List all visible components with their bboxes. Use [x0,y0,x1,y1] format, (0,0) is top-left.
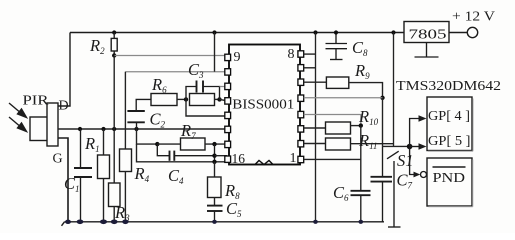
label R2 [89,36,105,56]
wire pin L2 feed [125,71,225,73]
pin boxes right side [298,51,304,163]
wire arrow to GP5 [410,146,420,148]
wire C3 to pin L3 [220,86,226,88]
IC U1 BISS0001 [229,45,300,168]
svg-text:TMS320DM642: TMS320DM642 [396,79,501,94]
capacitor C7 [371,146,393,221]
node R10 output junction [359,123,363,127]
svg-text:GP[ 5 ]: GP[ 5 ] [428,134,471,149]
capacitor C5 [207,206,223,222]
node R7 right junction [212,142,216,146]
wire PIR gate down to ground bus [58,138,68,222]
svg-text:D: D [59,99,69,114]
wire pin R2 to rail [304,67,316,69]
svg-text:1: 1 [290,151,297,166]
node R6/R5 junction [184,97,188,101]
wire PIR drain to bus [58,33,70,107]
wire long lower wire to R8 [137,144,229,162]
capacitor C4 [157,144,214,162]
node main output junction [407,144,413,150]
wire R2 bottom to pin L1 [114,55,225,57]
wire pin R4 long wire [304,115,361,126]
svg-text:PND: PND [433,171,466,186]
label D [59,99,69,114]
label R7 [180,121,196,141]
infrared arrows [9,103,27,132]
label C1 [64,174,80,194]
resistor R3 [109,183,121,222]
svg-text:BISS0001: BISS0001 [232,98,294,113]
svg-text:9: 9 [234,50,241,65]
node C4 right junction [212,154,216,158]
wire pin R3 to R9 junction [304,97,383,99]
node top bus junctions [112,30,396,34]
wire node wire to S1 junction [383,145,410,147]
wire top supply bus [70,32,467,34]
pin boxes left side [225,54,231,162]
node R2 bottom [112,53,116,57]
wire PIR source long wire to pin L6 [58,128,226,130]
label R6 [151,75,167,95]
resistor R6 [151,94,186,106]
resistor R1 [98,129,110,222]
label R1 [84,134,100,154]
PIR sensor [30,103,58,146]
wire R9 junction down [382,98,384,147]
svg-text:GP[ 4 ]: GP[ 4 ] [428,109,470,124]
label R10 [358,107,379,127]
node R5 right junction [217,97,221,101]
node R8 top junction [212,160,216,164]
svg-text:PIR: PIR [23,94,50,109]
svg-text:16: 16 [232,152,246,167]
label R4 [134,164,150,184]
svg-text:+ 12 V: + 12 V [452,10,495,25]
capacitor C6 [351,126,371,222]
svg-text:7805: 7805 [409,28,447,43]
label C3 [188,60,204,80]
label PIR [23,94,50,109]
wire R2 line down through source wire [113,56,115,184]
capacitor C1 [74,129,92,222]
label G [53,152,63,167]
label R3 [114,203,130,223]
label R9 [354,61,370,81]
port box GP4 GP5 [427,97,473,151]
label C5 [226,199,242,219]
svg-text:8: 8 [288,47,295,62]
inverter bubble PND [421,172,427,178]
node taps on source wire [78,127,139,131]
resistor R8 [208,162,222,206]
wire pin R1 up to bus [304,53,316,55]
wire arrow to GP4 [410,119,420,147]
svg-text:S1: S1 [397,151,414,170]
terminal +12V [452,10,495,38]
resistor R4 [120,72,132,222]
wire C2 node down to R7/C4 block [137,129,158,144]
capacitor C3 [186,81,220,100]
capacitor C2 [127,99,151,129]
label C8 [352,38,368,58]
wire pin R7 to C6 line [304,158,361,160]
node R7/C4 left junction [155,142,159,146]
node ground bus junctions [65,220,363,225]
ground bus bottom [62,222,385,226]
switch S1 [387,151,401,227]
resistor R10 [304,122,361,134]
wire down to PND input [410,147,415,175]
node R9 output junction [380,96,384,100]
resistor R9 [304,77,383,98]
label C2 [150,110,166,130]
label S1 [397,151,414,170]
port box PND [427,158,473,207]
label TMS320DM642 [396,79,501,94]
wire bus drop to pin L2 wire [214,33,216,72]
label C7 [397,171,413,191]
capacitor C8 [326,33,348,60]
resistor R5 [190,94,220,106]
label R11 [358,131,377,151]
svg-text:G: G [53,152,63,167]
label R8 [224,181,240,201]
wire 7805 rail down to switch [393,33,395,147]
resistor R7 [157,138,225,150]
resistor R2 [111,33,117,56]
wire R6/R5 junction down to pin L5 [186,99,226,116]
label C4 [168,166,184,186]
wire vcc-gnd rail x315 [315,33,317,222]
resistor R11 [304,138,394,150]
wire R5 junction to pin L4 [220,99,226,100]
label C6 [333,183,349,203]
wire C4 junction jog to pin L8 [215,156,227,160]
ground under 7805 [415,43,439,58]
regulator U2 7805 [404,22,449,43]
